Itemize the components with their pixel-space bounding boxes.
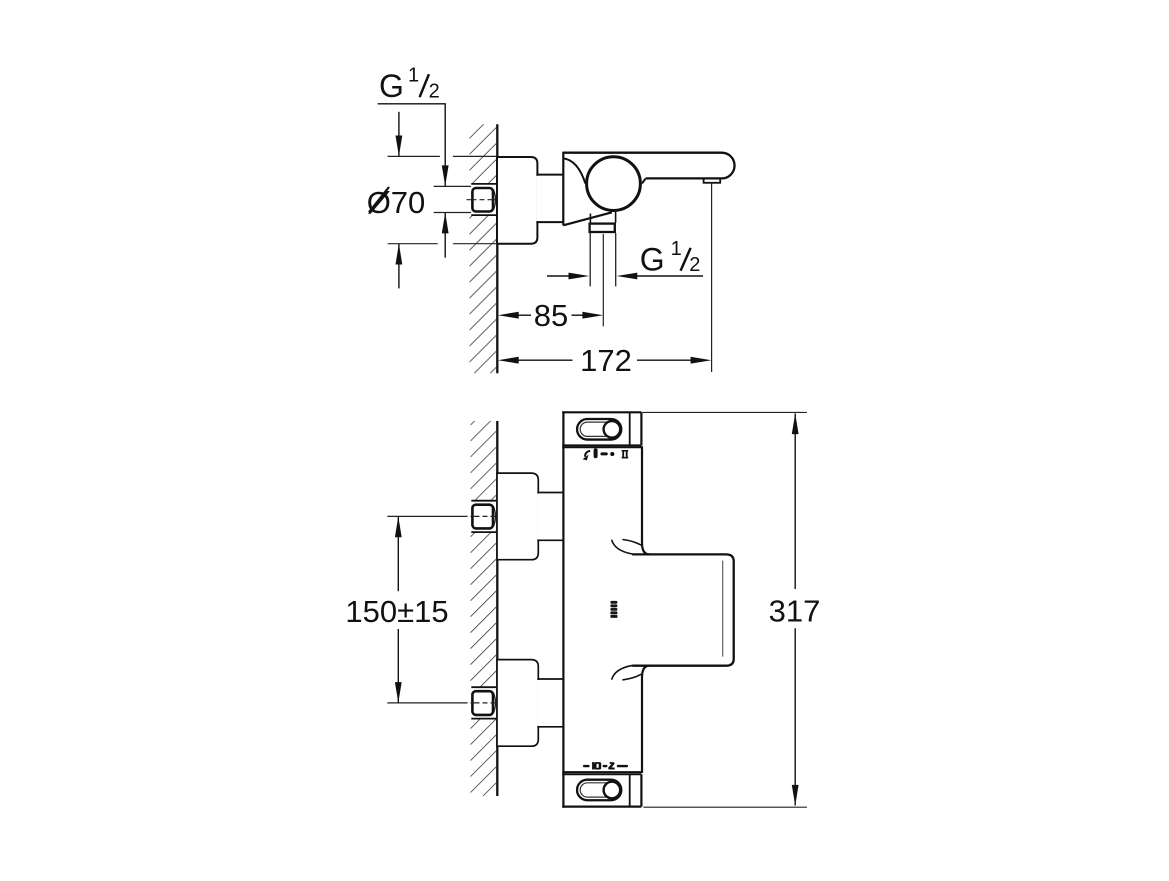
dimension 150±15 bbox=[345, 516, 448, 703]
svg-text:317: 317 bbox=[769, 593, 821, 628]
spout outline (top edge, right cap, bottom edge) bbox=[563, 153, 734, 184]
outlet aerator bbox=[704, 179, 721, 183]
bottom markings row bbox=[583, 762, 628, 769]
lower nipple centre line + 150 extension bbox=[387, 702, 497, 704]
bottom cap bbox=[562, 774, 641, 806]
spout fillet curves bbox=[612, 540, 642, 680]
dimension 85 bbox=[498, 298, 603, 333]
svg-text:2: 2 bbox=[429, 81, 440, 103]
svg-text:1: 1 bbox=[671, 238, 682, 260]
dimension G 1/2 (lower, to down pipe) bbox=[547, 238, 703, 279]
svg-text:G: G bbox=[640, 241, 665, 277]
neck between escutcheon and body bbox=[536, 175, 563, 223]
lower S-union escutcheon bbox=[497, 660, 538, 747]
svg-text:150±15: 150±15 bbox=[345, 594, 448, 629]
upper nipple bbox=[471, 501, 496, 532]
concave transition curve bbox=[563, 158, 585, 183]
escutcheon flange (side view) bbox=[497, 157, 537, 244]
wall line (front view) bbox=[496, 421, 498, 796]
upper nipple centre line + 150 extension bbox=[387, 515, 497, 517]
faucet body silhouette (white fill) bbox=[563, 153, 734, 226]
body bottom slant bbox=[563, 212, 612, 225]
control icons row bbox=[583, 448, 629, 460]
body left edge bbox=[562, 152, 564, 226]
svg-text:85: 85 bbox=[534, 298, 568, 333]
GROHE logo mark bbox=[610, 601, 617, 618]
nipple centre line (dash-dot) bbox=[467, 199, 498, 201]
lower S-union neck bbox=[537, 679, 563, 727]
svg-text:G: G bbox=[379, 68, 404, 104]
top cap slot bbox=[577, 419, 621, 440]
pipe below nut bbox=[590, 233, 616, 286]
connection nut under body bbox=[590, 224, 615, 232]
cartridge pipe verticals under circle bbox=[590, 212, 615, 223]
lower nipple bbox=[471, 687, 496, 718]
svg-text:172: 172 bbox=[580, 343, 632, 378]
body right edge (upper / lower segments with corners) bbox=[642, 446, 650, 773]
spout block (front view) bbox=[632, 554, 734, 665]
handle joint circle bbox=[587, 157, 641, 211]
upper S-union neck bbox=[537, 493, 563, 541]
body top edge bbox=[562, 446, 642, 448]
wall line (top view) bbox=[496, 124, 498, 373]
svg-text:1: 1 bbox=[408, 64, 419, 86]
upper S-union escutcheon bbox=[497, 473, 538, 560]
dimension 317 bbox=[643, 412, 821, 807]
dimension G 1/2 (top label) bbox=[378, 64, 449, 257]
wall nipple (side view) bbox=[471, 184, 496, 215]
dimension 172 bbox=[498, 184, 712, 379]
thermostat body bbox=[563, 411, 642, 808]
wall hatching (front view) bbox=[470, 421, 497, 796]
bottom cap slot bbox=[577, 780, 621, 801]
svg-text:2: 2 bbox=[689, 254, 700, 276]
dimension Ø70 bbox=[367, 112, 497, 289]
body bottom edge bbox=[562, 771, 642, 773]
wall hatching (top view) bbox=[469, 124, 497, 373]
pipe centre line bbox=[602, 234, 604, 326]
top cap bbox=[562, 412, 641, 445]
